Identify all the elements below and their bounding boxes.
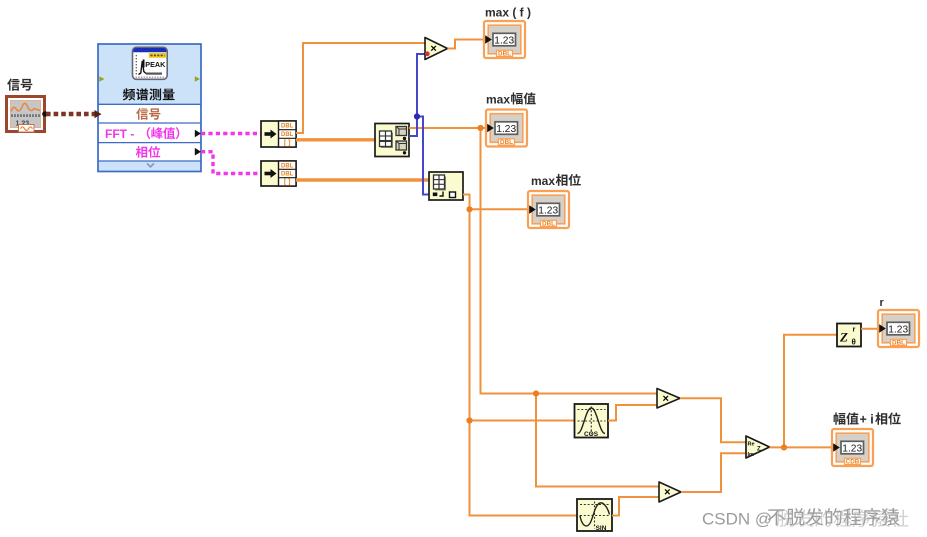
express VI output arrow FFT (black) (195, 130, 201, 138)
svg-text:PEAK: PEAK (145, 60, 166, 69)
svg-text:[ ]: [ ] (284, 140, 291, 147)
svg-text:DBL: DBL (281, 163, 294, 169)
wire 相位 to convert node 2 (201, 152, 261, 174)
svg-text:DBL: DBL (498, 51, 511, 58)
wire cos to multiply2 (608, 405, 657, 421)
svg-text:[ ]: [ ] (284, 179, 291, 186)
express VI title 频谱测量 (123, 88, 175, 100)
express VI error-out arrow (green, right) (195, 76, 200, 81)
svg-text:SIN: SIN (596, 525, 607, 532)
express VI output arrow 相位 (black) (195, 148, 201, 156)
express VI row 信号 (136, 108, 160, 120)
svg-text:1.23: 1.23 (538, 205, 558, 216)
express VI expand chevron (147, 163, 154, 167)
svg-text:×: × (430, 43, 436, 55)
junction R split to lower multiply (533, 390, 539, 396)
label 信号 (7, 79, 32, 91)
junction complex (781, 444, 787, 450)
indicator max幅值 (486, 110, 527, 147)
indicator max ( f ) (484, 21, 525, 58)
svg-text:r: r (880, 297, 885, 309)
wire signal to express VI (46, 112, 95, 117)
wire Rcos to ReIm (680, 398, 746, 442)
svg-text:COS: COS (584, 431, 599, 438)
wire FFT(峰值) to convert node 1 (201, 132, 261, 135)
svg-text:DBL: DBL (281, 172, 294, 178)
wire Rsin to ReIm (681, 453, 746, 492)
svg-text:max ( f ): max ( f ) (485, 6, 531, 20)
svg-text:DBL: DBL (281, 124, 294, 130)
watermark CSDN (702, 508, 900, 529)
svg-text:max: max (486, 92, 510, 106)
svg-text:DBL: DBL (892, 340, 905, 347)
wire sin to multiply3 (612, 497, 659, 516)
svg-text:DBL: DBL (281, 132, 294, 138)
svg-text:CSDN @: CSDN @ (702, 510, 772, 529)
junction max index (414, 113, 420, 119)
multiply node 2 (R cos) (657, 389, 680, 409)
Index Array node (429, 172, 463, 200)
svg-text:+ i: + i (860, 412, 874, 426)
svg-text:1.23: 1.23 (494, 35, 514, 46)
svg-text:FFT -: FFT - (105, 127, 134, 141)
sine node (577, 499, 612, 532)
label max ( f ) (485, 6, 531, 20)
svg-text:CDB: CDB (846, 459, 860, 466)
multiply node 1 (425, 38, 448, 60)
label max幅值 (486, 92, 536, 106)
express VI row 相位 (136, 146, 161, 158)
multiply node 3 (R sin) (659, 482, 681, 502)
express VI error-in arrow (green, left) (99, 76, 104, 81)
wire 相位 array to IndexArray (296, 178, 429, 181)
indicator 幅值+ i相位 (complex) (832, 429, 873, 466)
wire complex Z (770, 335, 838, 448)
express VI row FFT-（峰值） (105, 127, 179, 141)
wire r to indicator (861, 328, 878, 330)
convert-from-dynamic-data node 1 (261, 121, 296, 147)
convert-from-dynamic-data node 2 (261, 161, 296, 186)
indicator max相位 (528, 191, 569, 228)
svg-text:DBL: DBL (542, 221, 555, 228)
express VI input arrow 信号 (dark red) (95, 110, 102, 118)
svg-text:Im: Im (748, 452, 755, 458)
control terminal 信号 (signal icon) (7, 97, 48, 133)
Re/Im to Complex node (746, 436, 770, 458)
svg-text:1.23: 1.23 (496, 124, 516, 135)
wire FFT array to ArrayMaxMin (296, 138, 375, 141)
svg-text:DBL: DBL (500, 139, 513, 146)
wire max index (blue) (409, 54, 430, 195)
Array Max & Min node (375, 124, 409, 157)
svg-text:Z: Z (757, 447, 761, 453)
wire dt to multiply1 (296, 43, 425, 133)
label 幅值+ i相位 (834, 412, 901, 426)
wire max value (R) (409, 128, 659, 487)
junction R at indicator (477, 125, 483, 131)
cosine node (575, 404, 609, 438)
Complex to Polar node (837, 324, 861, 347)
express VI 频谱测量 block (98, 44, 201, 172)
label max相位 (531, 174, 581, 188)
svg-text:max: max (531, 174, 555, 188)
svg-text:θ: θ (852, 338, 856, 347)
junction theta at max相位 (466, 206, 472, 212)
junction theta at cos (466, 417, 472, 423)
indicator r (878, 310, 919, 347)
coercion dot on multiply 1 (425, 51, 430, 56)
svg-text:×: × (664, 487, 670, 499)
svg-text:r: r (853, 325, 856, 334)
wire phase (theta) (463, 195, 577, 516)
svg-text:Z: Z (839, 330, 848, 345)
svg-text:1.23: 1.23 (842, 443, 862, 454)
label r (880, 297, 885, 309)
svg-text:×: × (663, 393, 669, 405)
wire multiply1 to max(f) (448, 40, 485, 49)
watermark overlap layer (777, 510, 909, 528)
svg-text:Re: Re (748, 442, 755, 448)
svg-text:1.23: 1.23 (888, 324, 908, 335)
